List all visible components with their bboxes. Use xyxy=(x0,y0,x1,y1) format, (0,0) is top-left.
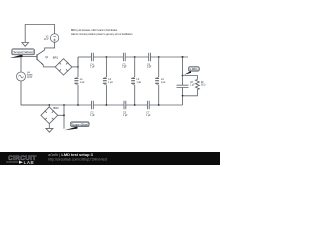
capacitor C8 xyxy=(177,85,189,87)
wire top rail right corner down to load xyxy=(182,57,184,76)
footer logo LAB with arrow xyxy=(6,160,34,165)
svg-text:3.2 kHz: 3.2 kHz xyxy=(27,76,33,79)
ground GND2 xyxy=(46,128,53,132)
wire load bottom to bottom rail xyxy=(182,96,184,105)
label V2 value xyxy=(44,35,49,42)
svg-text:BR1: BR1 xyxy=(53,55,59,59)
junction bottom rail BR2 xyxy=(48,104,50,106)
label V4 value xyxy=(27,71,33,78)
top rail segment 4 xyxy=(151,56,189,58)
wire R2 bottom to load bottom node xyxy=(183,90,198,96)
annotation note text xyxy=(71,28,133,36)
label L1 xyxy=(80,77,84,84)
inductor L4 xyxy=(155,57,159,105)
wire emitter to BR1 xyxy=(43,66,55,68)
svg-text:1 µF: 1 µF xyxy=(123,113,128,117)
svg-text:1 µH: 1 µH xyxy=(108,80,112,84)
capacitor C2 xyxy=(92,101,94,109)
junction load top node xyxy=(182,75,184,77)
footer bar xyxy=(0,152,220,165)
svg-text:a0a9r | LMD test setup 3: a0a9r | LMD test setup 3 xyxy=(48,153,93,157)
wire C8 top stem xyxy=(182,76,184,86)
svg-text:BR2: BR2 xyxy=(53,106,59,110)
bottom rail segment mid1 xyxy=(93,104,124,106)
inductor L1 xyxy=(74,57,78,105)
flag Scope(Yellow) xyxy=(10,49,35,58)
label C3 xyxy=(122,62,127,68)
top rail segment 3 xyxy=(125,56,149,58)
wire V2 bottom to Q1 collector xyxy=(45,42,55,50)
svg-text:1 µF: 1 µF xyxy=(146,113,151,117)
junction load bottom node xyxy=(182,95,184,97)
wire BR1 right to ladder input node xyxy=(72,66,78,68)
svg-text:1 µF: 1 µF xyxy=(122,65,127,69)
Q1 emitter arrowhead xyxy=(41,62,44,65)
label C4 xyxy=(90,62,95,68)
label L4 xyxy=(161,77,165,84)
svg-text:1 µF: 1 µF xyxy=(90,65,95,69)
wire BR2 bottom to ground xyxy=(48,124,50,129)
label C8 xyxy=(190,80,195,87)
svg-text:1 µF: 1 µF xyxy=(190,83,195,87)
label L3 xyxy=(137,77,141,84)
capacitor C3 xyxy=(123,53,125,61)
label C5 xyxy=(123,110,128,117)
junction BR2 right wire xyxy=(63,114,65,116)
wire BR2 right vertex loop to bottom rail xyxy=(58,105,64,115)
junction top rail load column xyxy=(182,56,184,58)
wire base node down to V4 xyxy=(20,57,22,72)
junction top rail L2 xyxy=(106,56,108,58)
voltage source V4 xyxy=(17,72,26,81)
junction bottom rail scope stub xyxy=(63,104,65,106)
wire C8 bottom stem xyxy=(182,88,184,96)
junction top rail L3 xyxy=(134,56,136,58)
wire Q1 base xyxy=(21,56,37,58)
label R2 xyxy=(201,80,205,87)
svg-text:10 V: 10 V xyxy=(44,37,49,41)
capacitor C5 xyxy=(124,101,126,109)
wire node up to top rail xyxy=(77,57,79,67)
bridge rectifier BR1 xyxy=(55,59,72,75)
svg-text:Q1: Q1 xyxy=(45,55,49,59)
bridge rectifier BR2 xyxy=(41,105,58,124)
svg-text:http://circuitlab.com/c/8bq172: http://circuitlab.com/c/8bq172/lmd-test xyxy=(48,157,107,161)
junction top rail L4 xyxy=(158,56,160,58)
junction bottom rail L4 xyxy=(158,104,160,106)
flag LMD1 xyxy=(184,67,199,75)
svg-text:1 µF: 1 µF xyxy=(147,65,152,69)
label C6 xyxy=(147,62,152,68)
svg-text:1 µH: 1 µH xyxy=(137,80,141,84)
transistor Q1 xyxy=(37,50,45,67)
svg-text:1 µH: 1 µH xyxy=(161,80,165,84)
svg-text:Scope(Yellow): Scope(Yellow) xyxy=(13,50,33,54)
capacitor C6 xyxy=(149,53,151,61)
flag Scope(Blue) xyxy=(65,122,90,130)
capacitor C4 xyxy=(92,53,94,61)
label C7 xyxy=(146,110,151,117)
bottom rail segment right xyxy=(149,104,182,106)
svg-text:LAB: LAB xyxy=(24,160,35,165)
wire V4 bottom to bottom rail xyxy=(21,81,49,105)
bottom rail segment left xyxy=(21,104,92,106)
wire scope blue stub xyxy=(63,115,65,129)
svg-text:Scope (Blue): Scope (Blue) xyxy=(72,122,89,126)
ground GND1 xyxy=(22,43,29,47)
resistor R2 xyxy=(196,79,200,89)
svg-text:LMD1: LMD1 xyxy=(190,68,198,71)
svg-text:100 Ω: 100 Ω xyxy=(201,83,205,87)
label L2 xyxy=(108,77,112,84)
wire load node to R2 top xyxy=(183,76,198,80)
capacitor C7 xyxy=(147,101,149,109)
top rail segment 2 xyxy=(93,56,123,58)
svg-text:1 µF: 1 µF xyxy=(90,113,95,117)
inductor L3 xyxy=(131,57,135,105)
svg-text:BR1U just because I didn't wan: BR1U just because I didn't want to find … xyxy=(71,28,118,32)
svg-text:Had to connect positive power: Had to connect positive power to get any… xyxy=(71,32,133,36)
label C2 xyxy=(90,110,95,117)
wire V2 top to ground loop xyxy=(25,25,54,43)
junction bottom rail L1 xyxy=(77,104,79,106)
voltage source V2 xyxy=(50,34,58,42)
junction bottom rail L2 xyxy=(106,104,108,106)
bottom rail segment mid2 xyxy=(126,104,148,106)
junction ladder input xyxy=(77,66,79,68)
inductor L2 xyxy=(103,57,107,105)
top rail segment 1 xyxy=(78,56,92,58)
junction bottom rail L3 xyxy=(134,104,136,106)
svg-text:1 µH: 1 µH xyxy=(80,80,84,84)
